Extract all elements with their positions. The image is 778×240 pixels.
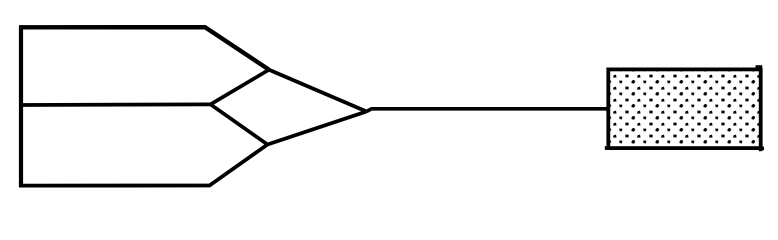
load box bottom edge overhang (scan artifact): [605, 146, 764, 150]
load box right edge lower tip (scan artifact): [759, 147, 763, 151]
wire: merged output line to load box: [367, 109, 609, 112]
load box (stippled rectangle): [608, 69, 760, 148]
wire: upper junction to merge point: [269, 70, 367, 112]
wire: middle branch horizontal: [19, 103, 211, 107]
wire: top branch (horizontal then diagonal down to upper junction): [19, 27, 269, 69]
wire: middle branch split up to upper junction: [211, 70, 270, 105]
wire: left vertical bus: [19, 25, 23, 187]
wire: bottom branch (horizontal then diagonal up to lower junction): [19, 145, 268, 186]
load box top-right corner step (scan artifact): [756, 65, 763, 68]
wire: lower junction to merge point: [268, 112, 367, 145]
wire: middle branch split down to lower junction: [211, 104, 268, 144]
